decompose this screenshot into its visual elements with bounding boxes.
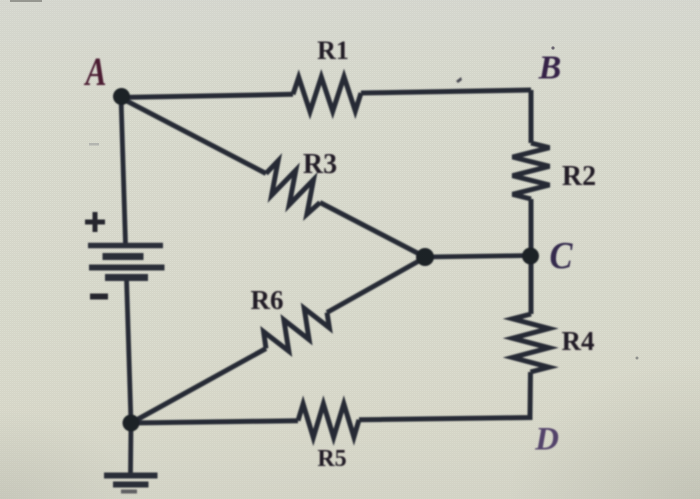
photo edge mark top-left [10,0,42,2]
faint speck [636,357,639,360]
junction dot node C [522,248,539,265]
wire node C down to R4 [529,256,534,315]
svg-text:R2: R2 [562,161,596,192]
wire bottom-left node to ground [128,423,133,473]
wire A to R1 [121,94,293,97]
resistor R3 [266,161,320,214]
svg-text:R3: R3 [303,149,337,180]
junction dot center node [416,248,434,266]
svg-text:R1: R1 [317,36,349,65]
svg-text:C: C [550,235,574,277]
wire battery - terminal to bottom-left node [127,278,132,423]
svg-text:R6: R6 [251,285,284,315]
tiny speck above B [551,46,554,49]
resistor R1 [293,77,361,112]
wire node D corner to R5 [359,415,530,420]
resistor R2 [513,143,550,199]
ground symbol [104,476,158,492]
wire node C to center junction [425,256,531,258]
svg-text:D: D [534,422,559,458]
wire bottom-left node to R6 [131,349,266,424]
resistor R6 [264,308,330,351]
faint pencil mark [89,143,99,146]
battery plus polarity mark [85,212,105,232]
svg-text:R4: R4 [562,326,595,356]
wire R6 to center junction [327,258,425,313]
svg-text:A: A [83,49,106,94]
wire A to R3 [121,98,266,174]
wire R2 to node C [529,199,534,251]
wire R1 to node B [361,90,531,93]
junction dot bottom-left node [123,415,140,432]
resistor R5 [298,404,359,438]
wire R5 to bottom-left node [131,421,298,423]
resistor R4 [513,314,550,372]
svg-text:R5: R5 [317,446,346,472]
wire R4 to node D [528,372,534,415]
ink speck [456,77,462,83]
junction dot node A [113,88,130,105]
wire A down to battery + terminal [121,97,126,244]
wire node B down to R2 [529,90,534,143]
wire R3 to center junction [320,203,425,258]
battery minus polarity mark [90,294,108,300]
battery V1 plates [88,246,165,278]
svg-text:B: B [538,50,562,87]
